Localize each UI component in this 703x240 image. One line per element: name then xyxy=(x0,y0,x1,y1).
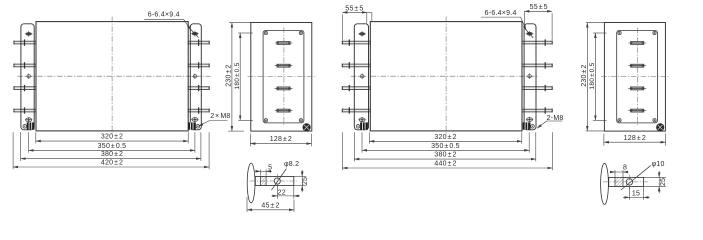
FV1: right mounting flange xyxy=(190,24,201,130)
FV1: right terminal busbar 3 xyxy=(188,87,209,90)
SV2: vertical centerline xyxy=(637,28,639,126)
FV2: dimension 55±5 left xyxy=(341,14,343,40)
FV1: top-left mounting slot 6.4x9.4 xyxy=(26,32,32,36)
SV1: dimension 180±0.5 xyxy=(238,32,253,34)
svg-text:15: 15 xyxy=(632,191,640,198)
SV1: terminal slot 2 xyxy=(277,64,290,67)
FV2: right terminal busbar 1 xyxy=(522,41,552,44)
FV1: top-right mounting slot 6.4x9.4 xyxy=(192,32,198,36)
svg-text:6-6.4×9.4: 6-6.4×9.4 xyxy=(148,11,180,18)
FV1: vertical centerline xyxy=(111,17,113,136)
FV1: right terminal busbar 4 xyxy=(188,109,209,112)
FV1: left terminal busbar 3 xyxy=(14,87,36,90)
FV1: bottom dimensions xyxy=(35,132,37,143)
DET1: terminal busbar xyxy=(255,177,293,186)
FV1: left terminal busbar 2 xyxy=(14,64,36,67)
FV2: middle-left hole xyxy=(360,75,363,78)
SV2: horizontal centerline xyxy=(601,75,669,77)
svg-text:2 × M8: 2 × M8 xyxy=(210,113,230,120)
FV2: filter body xyxy=(370,22,522,131)
svg-text:25: 25 xyxy=(660,178,667,186)
SV1: cover inner outline xyxy=(263,30,304,123)
FV2: left terminal busbar 4 xyxy=(342,109,370,112)
svg-text:55 ± 5: 55 ± 5 xyxy=(530,4,548,11)
SV1: terminal slot 3 xyxy=(277,87,290,90)
DET2: dimension 15 xyxy=(628,186,630,200)
FV2: vertical centerline xyxy=(445,17,447,136)
DET2: dimension 8 xyxy=(614,170,616,177)
svg-text:350 ± 0.5: 350 ± 0.5 xyxy=(431,143,460,150)
DET1: terminal hole xyxy=(274,178,280,184)
SV1: corner screw 1 xyxy=(264,31,267,34)
DET1: case end profile xyxy=(247,163,255,203)
FV2: right terminal busbar 3 xyxy=(522,87,552,90)
SV2: terminal slot 2 xyxy=(631,64,644,67)
SV2: cover inner outline xyxy=(617,30,658,123)
DET2: terminal busbar xyxy=(609,177,644,186)
svg-text:128 ± 2: 128 ± 2 xyxy=(270,136,292,143)
SV2: dimension 180±0.5 xyxy=(593,32,607,34)
FV2: bottom-right slot hole xyxy=(527,118,533,122)
svg-text:420 ± 2: 420 ± 2 xyxy=(101,160,123,167)
SV1: terminal slot 1 xyxy=(277,42,290,45)
DET1: dimension 22 xyxy=(276,185,278,199)
FV2: right terminal busbar 2 xyxy=(522,64,552,67)
FV1: middle-right hole xyxy=(193,75,196,78)
DET2: busbar centerline xyxy=(603,181,648,183)
FV2: dimension 55±5 right xyxy=(523,11,525,27)
FV1: left mounting flange xyxy=(21,24,34,130)
SV2: corner screw 1 xyxy=(618,31,621,34)
svg-text:350 ± 0.5: 350 ± 0.5 xyxy=(98,143,127,150)
DET1: dimension 25 xyxy=(294,176,307,178)
SV1: corner screw 3 xyxy=(264,119,267,122)
SV1: M8 stud end xyxy=(303,124,311,132)
FV1: filter body xyxy=(36,22,188,131)
FV2: bottom-right M8 stud xyxy=(523,122,531,129)
FV2: left terminal busbar 3 xyxy=(342,87,370,90)
FV1: left terminal busbar 4 xyxy=(14,109,36,112)
SV2: dimension 128±2 xyxy=(603,134,605,146)
svg-text:380 ± 2: 380 ± 2 xyxy=(434,152,456,159)
SV2: corner screw 3 xyxy=(618,119,621,122)
SV2: terminal slot 1 xyxy=(631,42,644,45)
SV1: end plate outline xyxy=(251,23,312,132)
FV2: left terminal busbar 1 xyxy=(342,41,370,44)
SV1: dimension 128±2 xyxy=(249,134,251,147)
FV1: middle-left hole xyxy=(27,75,30,78)
svg-text:φ8.2: φ8.2 xyxy=(284,161,299,168)
SV1: terminal slot 4 xyxy=(277,109,290,112)
SV2: M8 stud end xyxy=(656,124,664,132)
svg-text:8: 8 xyxy=(623,165,627,172)
svg-text:45 ± 2: 45 ± 2 xyxy=(261,202,279,209)
SV2: dimension 230±2 xyxy=(586,22,605,24)
FV2: right mounting flange xyxy=(524,24,536,130)
SV2: terminal slot 4 xyxy=(631,109,644,112)
FV2: middle-right hole xyxy=(528,75,531,78)
DET2: case end profile xyxy=(601,163,609,204)
FV2: bottom dimensions xyxy=(368,132,370,143)
FV1: right terminal busbar 2 xyxy=(188,64,209,67)
FV1: bottom-right slot hole xyxy=(192,118,198,122)
FV1: left terminal busbar 1 xyxy=(14,41,36,44)
svg-text:230 ± 2: 230 ± 2 xyxy=(581,64,588,86)
FV2: left terminal busbar 2 xyxy=(342,64,370,67)
FV2: bottom-left M8 stud xyxy=(360,122,368,129)
DET1: busbar centerline xyxy=(250,180,299,182)
svg-text:128 ± 2: 128 ± 2 xyxy=(624,135,646,142)
DET2: dimension 25 xyxy=(644,176,666,178)
SV1: corner screw 4 xyxy=(299,119,302,122)
FV2: bottom-left slot hole xyxy=(359,118,365,122)
SV2: end plate outline xyxy=(604,23,665,132)
FV2: top-right mounting slot 6.4x9.4 xyxy=(527,32,533,36)
svg-text:22: 22 xyxy=(278,189,286,196)
SV1: dimension 230±2 xyxy=(229,22,250,24)
SV2: corner screw 4 xyxy=(653,119,656,122)
DET1: dimension 5 xyxy=(259,169,261,175)
svg-text:φ10: φ10 xyxy=(652,161,665,168)
svg-text:25: 25 xyxy=(302,177,309,185)
FV2: left mounting flange xyxy=(354,24,368,130)
SV2: corner screw 2 xyxy=(653,31,656,34)
svg-text:230 ± 2: 230 ± 2 xyxy=(225,64,232,86)
DET1: dimension 45±2 xyxy=(246,197,248,212)
FV2: top-left mounting slot 6.4x9.4 xyxy=(359,32,365,36)
SV2: terminal slot 3 xyxy=(631,87,644,90)
FV1: bottom-left M8 stud xyxy=(27,122,35,129)
svg-text:320 ± 2: 320 ± 2 xyxy=(101,134,123,141)
svg-text:180 ± 0.5: 180 ± 0.5 xyxy=(589,62,596,89)
svg-text:380 ± 2: 380 ± 2 xyxy=(101,151,123,158)
FV1: right terminal busbar 1 xyxy=(188,41,209,44)
SV1: horizontal centerline xyxy=(248,75,316,77)
SV1: vertical centerline xyxy=(283,28,285,126)
SV1: corner screw 2 xyxy=(299,31,302,34)
svg-text:320 ± 2: 320 ± 2 xyxy=(434,134,456,141)
DET1: busbar through plate (hatched) xyxy=(260,177,266,186)
FV1: horizontal centerline xyxy=(17,75,210,77)
FV1: bottom-right M8 stud xyxy=(188,122,196,129)
FV1: bottom-left slot hole xyxy=(26,118,32,122)
svg-text:6-6.4×9.4: 6-6.4×9.4 xyxy=(485,10,517,17)
DET2: terminal hole xyxy=(626,179,632,185)
DET2: busbar through plate (hatched) xyxy=(615,177,623,186)
FV2: right terminal busbar 4 xyxy=(522,109,552,112)
svg-text:55 ± 5: 55 ± 5 xyxy=(345,6,363,13)
svg-text:180 ± 0.5: 180 ± 0.5 xyxy=(234,62,241,89)
svg-text:440 ± 2: 440 ± 2 xyxy=(434,161,456,168)
FV2: horizontal centerline xyxy=(351,75,539,77)
svg-text:5: 5 xyxy=(268,164,272,171)
